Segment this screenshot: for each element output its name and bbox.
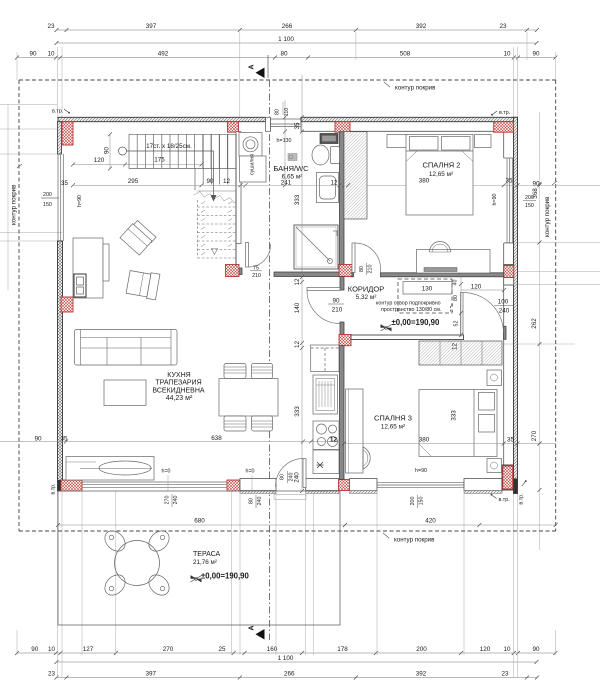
svg-text:638: 638 (211, 435, 222, 442)
bath west wall lower stub (239, 268, 242, 275)
upper flight outline (129, 134, 236, 168)
right margin vertical dim line (539, 112, 541, 550)
red column E (x504 y265) (504, 265, 514, 286)
chairs bottom (224, 416, 246, 431)
svg-text:240: 240 (294, 472, 301, 483)
bath east / bedroom2 west wall (340, 132, 345, 277)
svg-text:270: 270 (163, 646, 174, 653)
svg-text:392: 392 (416, 23, 427, 30)
svg-text:130: 130 (422, 286, 433, 293)
h=0 extension marks (168, 475, 252, 491)
sink unit (313, 450, 339, 474)
tick marks bottom row1 (15, 651, 557, 655)
dining table (219, 379, 278, 417)
top dimension labels row1: 23 397 266 392 23 (29, 23, 540, 678)
bedroom3 north wall (351, 335, 464, 340)
svg-text:КУХНЯ: КУХНЯ (167, 372, 190, 379)
right margin horizontals (504, 243, 600, 345)
svg-text:10: 10 (47, 51, 55, 58)
svg-text:в.тр.: в.тр. (52, 109, 63, 115)
svg-text:200: 200 (410, 497, 416, 506)
svg-text:пространство 130/80 см.: пространство 130/80 см. (381, 307, 441, 313)
wardrobe hatched (419, 341, 502, 365)
svg-text:23: 23 (499, 23, 507, 30)
corridor west door (90/210) leaf + arc (307, 288, 340, 291)
shower (294, 225, 338, 269)
corridor west wall stub lower (340, 322, 344, 335)
bath west wall (236, 132, 241, 244)
svg-text:21,76 м²: 21,76 м² (193, 559, 217, 566)
svg-text:333: 333 (294, 194, 301, 205)
svg-text:35: 35 (294, 122, 301, 130)
svg-text:ВСЕКИДНЕВНА: ВСЕКИДНЕВНА (152, 387, 204, 394)
svg-text:210: 210 (252, 273, 261, 279)
svg-text:17ст. х 18/25см.: 17ст. х 18/25см. (146, 143, 192, 150)
svg-text:БАНЯ/WC: БАНЯ/WC (273, 164, 309, 173)
bath south wall (274, 272, 340, 277)
svg-text:175: 175 (154, 157, 165, 164)
terrace chairs (101, 527, 173, 599)
svg-text:240: 240 (257, 497, 263, 506)
bedside table right (475, 135, 492, 148)
tick marks top row1 (55, 28, 540, 32)
svg-text:35: 35 (61, 180, 69, 187)
red column bath SE (339, 265, 352, 277)
svg-text:5,32 м²: 5,32 м² (356, 294, 377, 301)
tick marks top row3 (15, 56, 557, 60)
bath dim line 241 (73, 184, 600, 186)
interior chain extensions top (240, 32, 527, 118)
svg-text:80: 80 (275, 109, 281, 115)
svg-text:80: 80 (453, 295, 459, 301)
svg-text:h=90: h=90 (492, 193, 498, 205)
svg-text:90: 90 (31, 646, 39, 653)
svg-text:h=0: h=0 (162, 469, 171, 475)
south wall block 350-377 (350, 479, 378, 491)
svg-text:12: 12 (223, 178, 231, 185)
svg-text:200: 200 (416, 646, 427, 653)
svg-text:150: 150 (525, 203, 534, 209)
svg-text:23: 23 (47, 23, 55, 30)
svg-text:680: 680 (194, 518, 205, 525)
south wall block 240-276 (240, 479, 276, 491)
entrance door (80/240) (303, 459, 306, 488)
svg-text:110: 110 (284, 108, 290, 116)
red column S (x227) (227, 480, 240, 491)
desk along west wall (346, 389, 364, 473)
svg-text:A: A (249, 625, 256, 630)
stair dim: width 90 vertical (109, 134, 111, 168)
svg-text:СПАЛНЯ 3: СПАЛНЯ 3 (374, 414, 412, 423)
svg-text:52: 52 (454, 321, 460, 327)
svg-text:контур покрив: контур покрив (11, 184, 18, 225)
kitchen east wall (340, 346, 345, 480)
north wall east band (301, 117, 517, 121)
corridor north wall (bedroom2 south) (381, 273, 504, 277)
south wall: left corner block (58, 480, 62, 491)
TV unit (73, 238, 103, 298)
south wall block 306-339 (306, 479, 339, 491)
svg-text:420: 420 (425, 518, 436, 525)
bottom dim row 1 line (17, 652, 556, 654)
vanity sink (317, 173, 339, 203)
svg-text:120: 120 (471, 284, 482, 291)
svg-text:266: 266 (282, 23, 293, 30)
svg-text:12: 12 (294, 278, 301, 286)
bed 2 (406, 135, 473, 216)
level marker terrace (191, 576, 202, 583)
south window bedroom3 (377, 482, 464, 487)
armchair 2 (126, 269, 160, 300)
roof opening dashed box (398, 279, 452, 313)
svg-text:1 100: 1 100 (278, 36, 294, 43)
south window living (h=0) (82, 482, 227, 487)
bottom dim row 3 line (57, 677, 538, 679)
svg-text:44,23 м²: 44,23 м² (166, 395, 193, 402)
bath labels (273, 138, 338, 187)
svg-text:в.тр.: в.тр. (499, 497, 510, 503)
right wall verticals to top dims (514, 47, 518, 118)
lower flight dashed steps (198, 200, 237, 258)
120 dim bedroom2 bottom (461, 289, 504, 291)
svg-text:40: 40 (453, 280, 459, 286)
east window (bedroom2) (504, 158, 514, 243)
break line (194, 192, 236, 204)
red column bath SW (226, 265, 240, 277)
svg-text:10: 10 (48, 646, 56, 653)
svg-text:90: 90 (532, 51, 540, 58)
svg-text:178: 178 (337, 646, 348, 653)
svg-text:200: 200 (43, 192, 52, 198)
svg-text:контур покрив: контур покрив (544, 196, 551, 237)
svg-text:140: 140 (294, 302, 301, 313)
svg-text:ТРАПЕЗАРИЯ: ТРАПЕЗАРИЯ (155, 380, 201, 387)
svg-text:25: 25 (218, 646, 226, 653)
red column N (x228) (228, 122, 239, 133)
stair wall (right of stairs) (235, 134, 237, 266)
svg-text:508: 508 (400, 51, 411, 58)
svg-text:A: A (249, 64, 256, 69)
vertical dim chain x=302 (285, 75, 302, 491)
svg-text:90: 90 (532, 181, 540, 188)
svg-text:35: 35 (505, 178, 513, 185)
south wall block 464-502 (464, 479, 502, 491)
red column S-E corner (502, 465, 514, 490)
verticals below building to bottom dims (58, 491, 63, 677)
entrance steps (274, 492, 306, 500)
svg-text:h=130: h=130 (277, 138, 292, 144)
svg-text:397: 397 (146, 23, 157, 30)
washing machine icon small (288, 154, 297, 161)
chairs top (224, 364, 246, 379)
svg-text:266: 266 (284, 671, 295, 678)
svg-text:в.тр.: в.тр. (519, 493, 525, 504)
counter top section (311, 345, 339, 372)
svg-text:200: 200 (525, 195, 534, 201)
svg-text:270: 270 (165, 496, 171, 505)
door size labels (250, 263, 513, 483)
stove (313, 421, 339, 450)
svg-text:35: 35 (507, 437, 515, 444)
svg-text:380: 380 (419, 437, 430, 444)
bedside table bottom (487, 459, 502, 473)
svg-text:h=90: h=90 (77, 195, 83, 207)
bedroom3 dim line y=443.5 (344, 443, 556, 445)
svg-text:ТЕРАСА: ТЕРАСА (193, 551, 221, 558)
roof corner extension top right (555, 52, 557, 80)
north wall inner face line east (301, 130, 514, 132)
svg-text:контур покрив: контур покрив (394, 537, 435, 544)
bedroom3 door (100/240) (461, 293, 464, 336)
svg-text:СПАЛНЯ 2: СПАЛНЯ 2 (423, 161, 461, 170)
svg-text:12: 12 (452, 343, 459, 351)
north wall west band (58, 117, 266, 121)
svg-text:380: 380 (419, 178, 430, 185)
svg-text:90: 90 (332, 298, 340, 305)
wardrobe hatched (344, 132, 367, 219)
roof corner extension top left (16, 52, 18, 80)
dryer (washing machine w/ circle) (239, 133, 262, 157)
svg-text:80: 80 (280, 474, 286, 480)
stair winder steps (195, 169, 236, 191)
svg-text:12,65 м²: 12,65 м² (429, 171, 453, 178)
svg-text:150: 150 (419, 497, 425, 506)
svg-text:392: 392 (416, 671, 427, 678)
bottom dim row 2 line (57, 661, 537, 663)
office chair (430, 242, 451, 253)
svg-text:сушилня: сушилня (250, 154, 256, 175)
svg-text:333: 333 (294, 406, 301, 417)
red column W (living) (61, 297, 73, 312)
контур покрив labels (11, 82, 558, 544)
tick marks top row2 (55, 41, 539, 45)
svg-text:h=90: h=90 (415, 468, 427, 474)
svg-text:в.тр.: в.тр. (51, 483, 57, 494)
toilet (312, 145, 329, 165)
svg-text:12: 12 (330, 437, 338, 444)
top dim row 1 line (57, 29, 538, 31)
svg-text:80: 80 (249, 498, 255, 504)
red column S (x339 kitchen corner) (339, 480, 350, 491)
svg-text:контур отвор подпокривно: контур отвор подпокривно (376, 301, 441, 307)
svg-text:240: 240 (173, 496, 179, 505)
red column kitchen NE (339, 335, 351, 346)
bedroom3 north wall east stub (504, 326, 507, 339)
bedroom2 door (80/210) (352, 243, 355, 273)
svg-text:90: 90 (104, 147, 111, 155)
fireplace (66, 457, 154, 481)
svg-text:210: 210 (332, 307, 343, 314)
north window (bath) (271, 117, 302, 131)
svg-text:100: 100 (498, 299, 509, 306)
bath door (75/210) (246, 243, 249, 268)
section marker bottom (256, 629, 265, 640)
step lines upper flight (137, 134, 227, 168)
section marker top (256, 68, 265, 79)
red column N (x335) (335, 122, 350, 133)
svg-text:270: 270 (531, 430, 538, 441)
west window (living) (58, 154, 63, 241)
red column S-W (horizontal) (61, 480, 82, 491)
north wall opening end block (266, 117, 271, 131)
svg-text:492: 492 (158, 51, 169, 58)
svg-text:1 100: 1 100 (278, 655, 294, 662)
level marker corridor (381, 318, 441, 331)
bedside table left (387, 135, 408, 148)
red column NW (62, 122, 73, 145)
desk bedroom2 (417, 250, 491, 274)
svg-text:210: 210 (368, 265, 374, 274)
stair dim line 295/90/12 (73, 184, 246, 186)
east wall outer band (514, 117, 518, 493)
svg-text:90: 90 (29, 51, 37, 58)
svg-text:контур покрив: контур покрив (395, 85, 436, 92)
east wall inner face line (503, 132, 505, 466)
armchair 1 (120, 219, 156, 255)
svg-text:90: 90 (532, 646, 540, 653)
interior chain extensions bottom (82, 491, 464, 655)
svg-text:23: 23 (48, 671, 56, 678)
living dim line 638 (0, 441, 344, 443)
svg-text:КОРИДОР: КОРИДОР (348, 285, 384, 294)
svg-text:333: 333 (451, 410, 458, 421)
svg-text:±0,00=190,90: ±0,00=190,90 (392, 318, 441, 327)
bedroom2 dim line 380/35/90 (346, 183, 542, 187)
west wall upper band (58, 122, 62, 154)
svg-text:295: 295 (128, 178, 139, 185)
svg-text:240: 240 (499, 308, 510, 315)
corridor west wall stub upper (340, 277, 344, 291)
boiler dark box (320, 134, 338, 144)
top dim row 2 line (57, 42, 537, 44)
svg-text:120: 120 (94, 157, 105, 164)
svg-text:12: 12 (294, 341, 301, 349)
fridge (313, 375, 338, 414)
corridor vertical dim x=461 (40/80/52) (460, 272, 462, 337)
south-east corner band (514, 479, 518, 494)
svg-text:h=0: h=0 (246, 469, 255, 475)
walking line with start circle and arrow (119, 147, 127, 155)
coffee table (104, 380, 146, 406)
svg-text:±0,00=190,90: ±0,00=190,90 (201, 572, 250, 581)
red column NE corner (494, 122, 514, 133)
svg-text:80: 80 (359, 266, 365, 272)
cabinet under dryer (240, 156, 267, 182)
svg-text:90: 90 (206, 178, 214, 185)
svg-text:127: 127 (83, 646, 94, 653)
svg-text:262: 262 (531, 318, 538, 329)
svg-text:23: 23 (501, 671, 509, 678)
tick marks bottom row3 (55, 676, 540, 680)
stair dim line 120/175 (73, 164, 202, 166)
svg-text:90: 90 (34, 436, 42, 443)
svg-text:150: 150 (43, 202, 52, 208)
svg-text:12,65 м²: 12,65 м² (381, 424, 405, 431)
svg-text:240: 240 (289, 473, 295, 482)
svg-text:10: 10 (503, 51, 511, 58)
bottom window dim labels rotated (34, 109, 526, 509)
svg-text:в.тр.: в.тр. (499, 110, 510, 116)
top dim row 3 line (17, 57, 556, 59)
bedside table top (487, 370, 502, 386)
tick marks bottom row2 (55, 660, 539, 664)
chair half round (363, 447, 370, 469)
west wall lower solid (58, 241, 63, 491)
left wall verticals up to top dims (58, 47, 63, 118)
terrace table (115, 541, 160, 586)
svg-text:397: 397 (145, 671, 156, 678)
sofa (75, 330, 178, 366)
bed 3 (419, 390, 497, 457)
svg-text:120: 120 (480, 646, 491, 653)
svg-text:80: 80 (280, 51, 288, 58)
left margin horizontals (0, 105, 62, 242)
svg-text:10: 10 (503, 646, 511, 653)
